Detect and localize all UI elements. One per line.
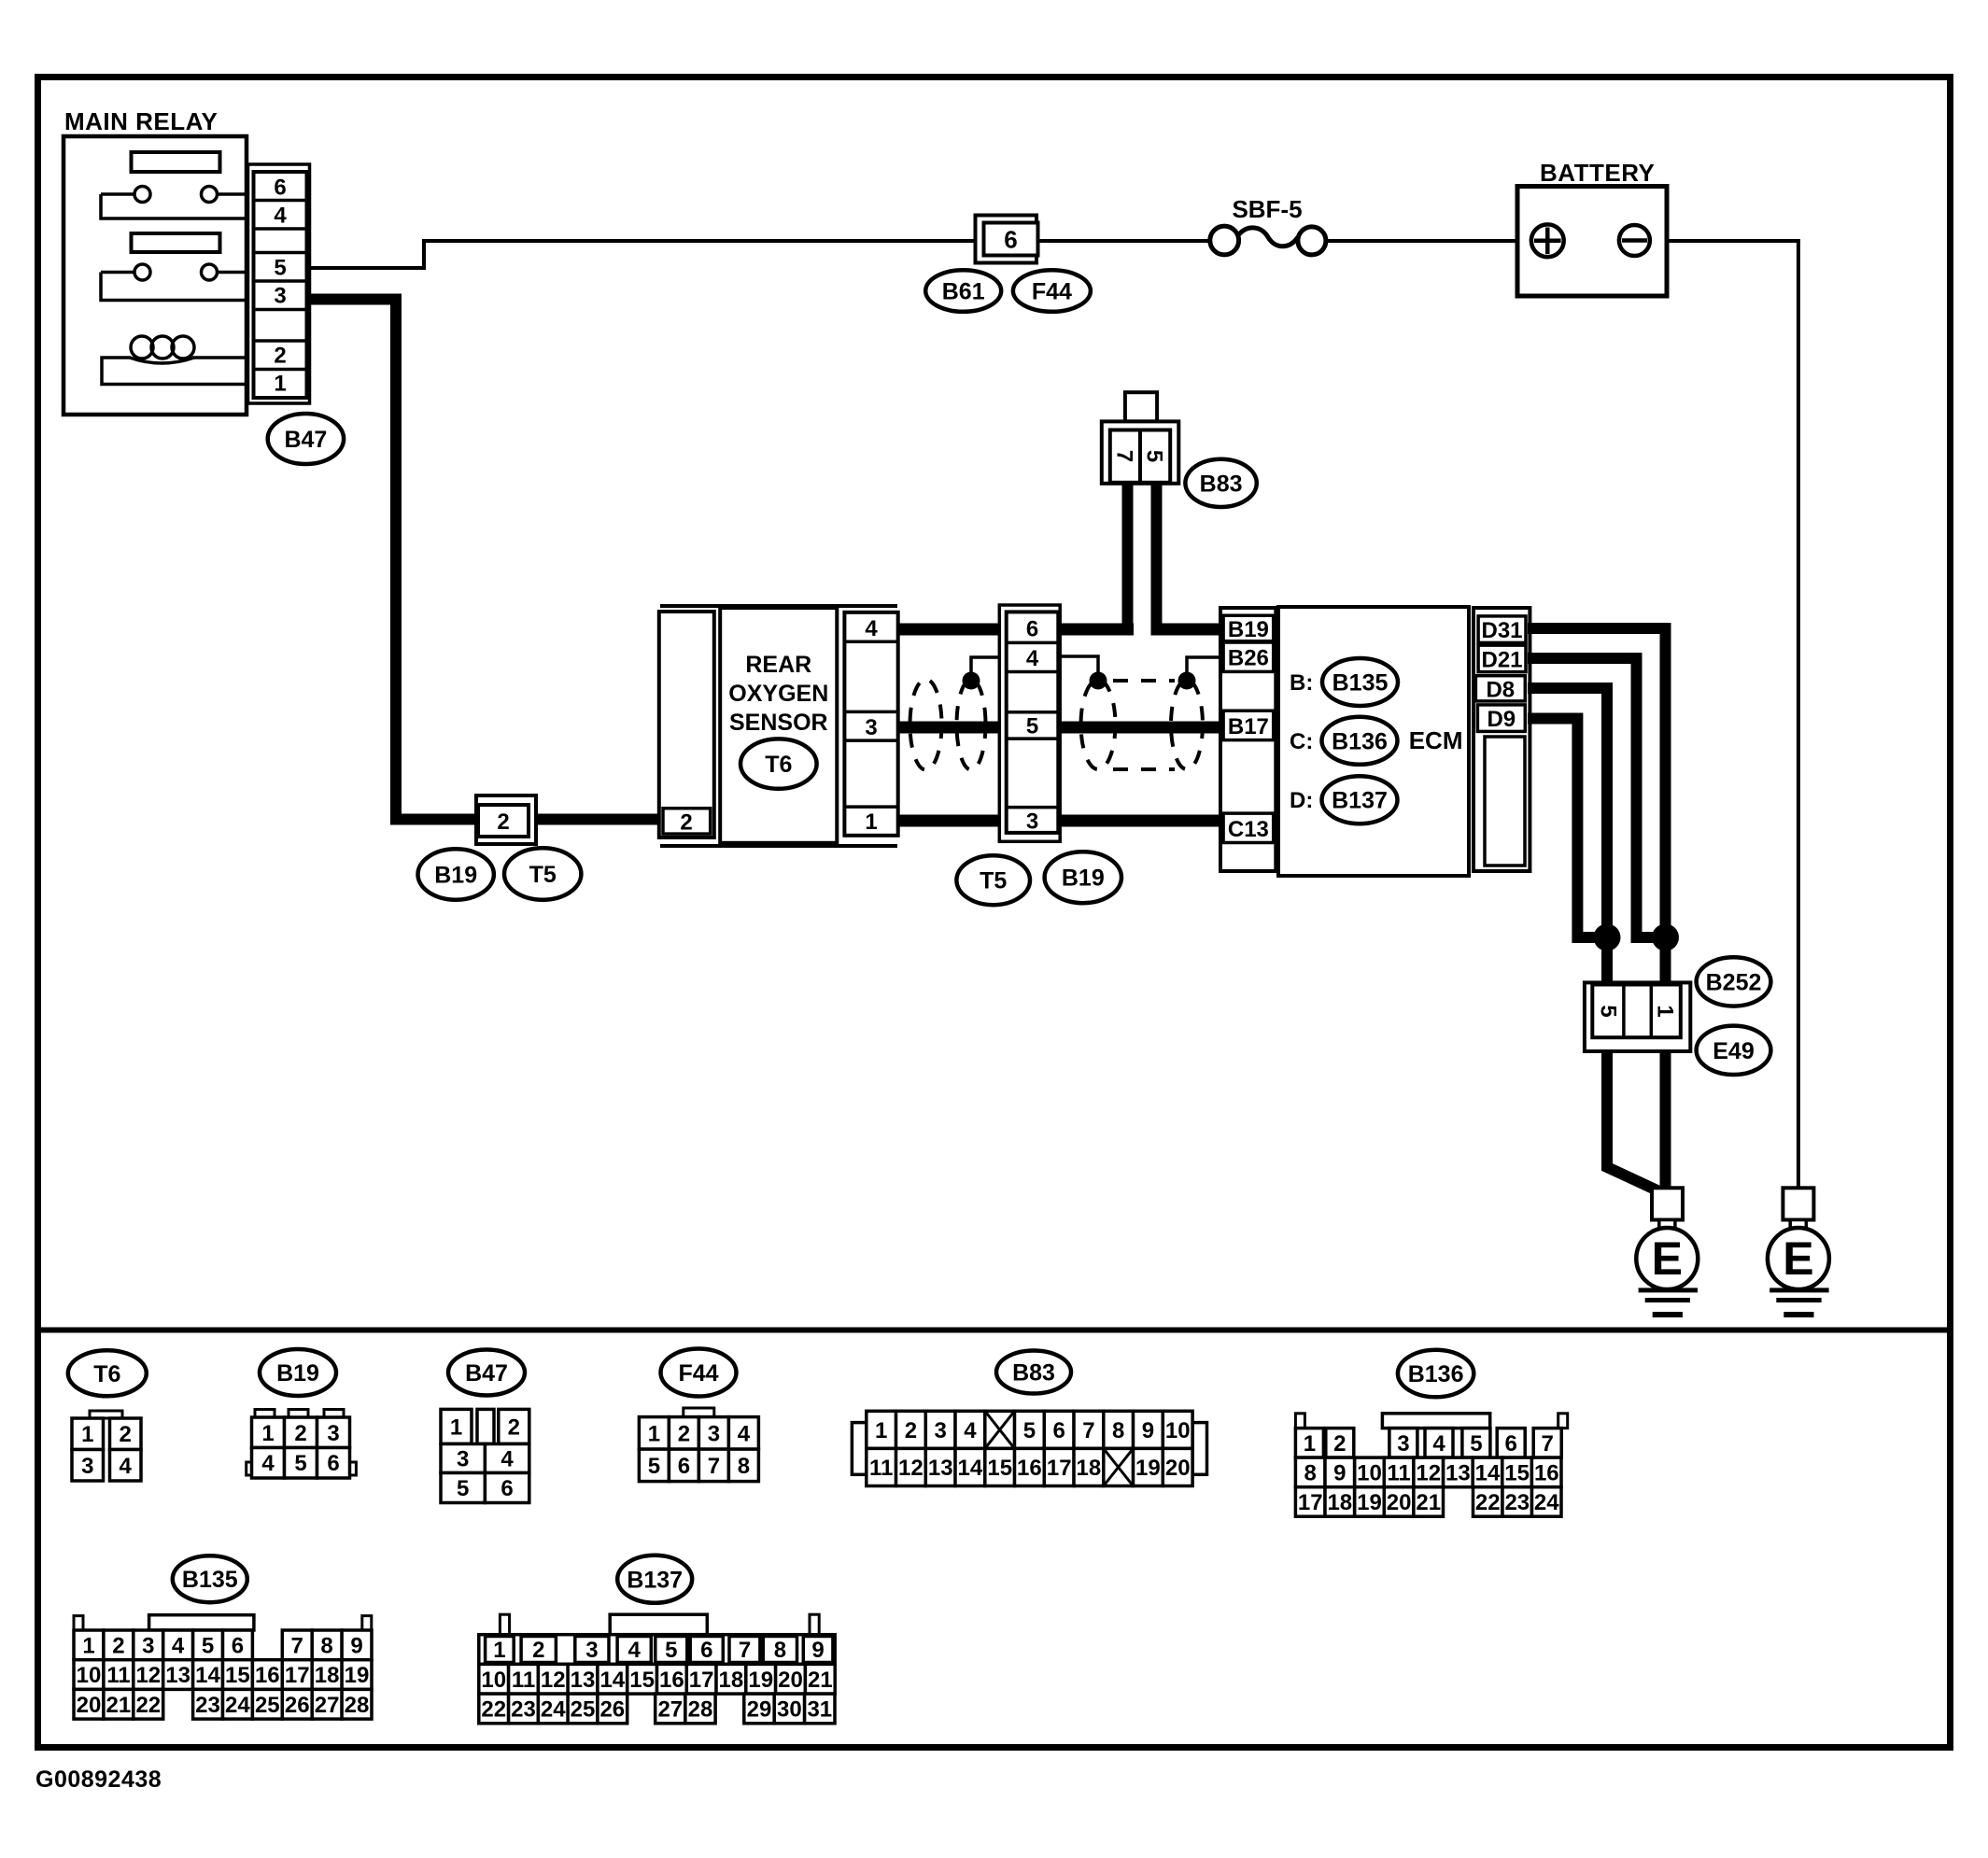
- relay pin 6: [274, 176, 286, 201]
- svg-text:19: 19: [345, 1663, 370, 1688]
- svg-text:12: 12: [1416, 1460, 1441, 1485]
- svg-text:5: 5: [1026, 714, 1038, 739]
- svg-text:18: 18: [1077, 1456, 1102, 1481]
- svg-text:4: 4: [261, 1451, 275, 1476]
- svg-text:15: 15: [987, 1456, 1012, 1481]
- T5 pin 3: [1026, 809, 1038, 835]
- svg-text:5: 5: [202, 1633, 214, 1658]
- svg-text:5: 5: [274, 256, 286, 281]
- connector label oval B83: [1185, 459, 1256, 507]
- svg-text:11: 11: [106, 1663, 130, 1688]
- wire: B83 pin5 vertical (heavy): [1151, 482, 1163, 636]
- svg-text:5: 5: [1596, 1005, 1621, 1017]
- svg-text:23: 23: [1504, 1490, 1530, 1515]
- svg-text:27: 27: [657, 1696, 683, 1722]
- separator line between schematic and connector views: [41, 1328, 1947, 1333]
- svg-text:BATTERY: BATTERY: [1540, 159, 1655, 187]
- svg-text:C13: C13: [1228, 817, 1269, 842]
- svg-text:B83: B83: [1200, 471, 1243, 497]
- svg-text:B19: B19: [276, 1360, 319, 1386]
- svg-text:17: 17: [1047, 1456, 1072, 1481]
- wire: junction to B252 pin 5 (heavy): [1601, 937, 1613, 986]
- ECM pin C13: [1223, 813, 1274, 842]
- svg-text:MAIN RELAY: MAIN RELAY: [64, 107, 218, 135]
- BATTERY label: [1540, 159, 1655, 187]
- svg-text:30: 30: [777, 1696, 802, 1722]
- connector label oval T5 (mid): [956, 855, 1030, 905]
- right shield dashed ellipse pair: [1081, 680, 1204, 769]
- svg-text:16: 16: [1534, 1460, 1559, 1485]
- svg-text:D21: D21: [1481, 647, 1522, 672]
- svg-text:B61: B61: [942, 279, 985, 305]
- svg-text:2: 2: [532, 1638, 544, 1663]
- svg-text:8: 8: [774, 1638, 786, 1663]
- battery positive terminal: [1531, 224, 1564, 257]
- svg-text:21: 21: [1416, 1490, 1441, 1515]
- connector view T6 pin grid: [72, 1411, 141, 1481]
- svg-text:1: 1: [274, 372, 286, 397]
- inline connector 2 (B19/T5) inner box and pin 2: [478, 805, 529, 837]
- inline connector 6 (B61/F44) outer box: [976, 216, 1037, 263]
- svg-text:9: 9: [350, 1633, 362, 1658]
- connector view B47 pin grid: [441, 1409, 529, 1502]
- svg-text:21: 21: [106, 1693, 132, 1718]
- svg-text:E49: E49: [1713, 1038, 1754, 1064]
- connector view oval B135: [173, 1555, 247, 1602]
- svg-text:5: 5: [294, 1451, 306, 1476]
- fuse SBF-5 label: [1232, 195, 1302, 223]
- ground E left earth lines: [1639, 1290, 1698, 1315]
- wire: sensor pin1 to T5 pin3 (heavy): [896, 815, 1008, 827]
- svg-text:6: 6: [1026, 617, 1038, 642]
- svg-text:F44: F44: [1032, 279, 1072, 305]
- svg-text:13: 13: [571, 1668, 596, 1693]
- junction dot left (D9/D8): [1594, 924, 1621, 951]
- wire: battery negative to right side corner: [1666, 239, 1800, 243]
- svg-text:15: 15: [225, 1663, 250, 1688]
- connector view B83 pin grid: [852, 1411, 1206, 1485]
- svg-text:26: 26: [285, 1693, 310, 1718]
- ECM main box: [1278, 607, 1469, 876]
- svg-text:4: 4: [738, 1421, 751, 1446]
- ground E left circle: [1636, 1228, 1698, 1289]
- svg-text:23: 23: [511, 1696, 536, 1722]
- svg-text:6: 6: [232, 1633, 244, 1658]
- relay pin 2: [274, 344, 286, 369]
- svg-text:7: 7: [1082, 1418, 1094, 1443]
- rear oxygen sensor shell top line: [660, 604, 897, 608]
- left shield drain wire to T5 pin 4: [971, 657, 1007, 681]
- wire: right side vertical down to ground E: [1797, 239, 1800, 1189]
- wire: ECM D31 to ground (heavy, right-down): [1528, 628, 1666, 939]
- svg-text:8: 8: [1304, 1460, 1317, 1485]
- relay pin 4: [274, 204, 287, 229]
- svg-text:B26: B26: [1228, 646, 1269, 671]
- connector label oval B19 (mid): [1045, 852, 1121, 903]
- inline connector 2 (B19/T5) outer box: [476, 795, 536, 844]
- svg-text:4: 4: [501, 1447, 514, 1472]
- inline connector 6 (B61/F44) inner box and pin 6: [984, 223, 1038, 256]
- ground E left terminal box: [1652, 1188, 1683, 1228]
- svg-text:6: 6: [274, 176, 286, 201]
- wire: B252 pin 5 down and diagonal to ground (heavy): [1607, 1036, 1659, 1191]
- svg-text:D8: D8: [1486, 677, 1515, 702]
- svg-text:3: 3: [708, 1421, 720, 1446]
- connector view oval B83: [996, 1351, 1071, 1394]
- wire: T5 pin5 to ECM B17 (heavy): [1057, 722, 1222, 734]
- svg-text:B136: B136: [1408, 1361, 1464, 1387]
- wire: ECM D8 (heavy, right-down): [1528, 688, 1607, 939]
- svg-text:14: 14: [1475, 1460, 1501, 1485]
- right shield drain wire to ECM B26: [1187, 657, 1222, 674]
- ground E right earth lines: [1769, 1290, 1828, 1315]
- svg-text:6: 6: [1053, 1418, 1065, 1443]
- svg-text:D31: D31: [1481, 618, 1522, 643]
- ECM pin B19: [1223, 615, 1274, 642]
- relay contact bar 2: [132, 233, 220, 252]
- sensor connector T6 left column: [659, 612, 714, 838]
- connector view B135 pin grid: [74, 1615, 372, 1719]
- svg-text:6: 6: [327, 1451, 339, 1476]
- svg-text:24: 24: [541, 1696, 566, 1722]
- connector view oval B137: [617, 1555, 692, 1603]
- svg-text:7: 7: [708, 1454, 720, 1479]
- svg-text:29: 29: [747, 1696, 772, 1722]
- rear oxygen sensor shell bottom line: [660, 844, 897, 848]
- connector view B136 pin grid: [1295, 1414, 1567, 1516]
- svg-text:19: 19: [1357, 1490, 1382, 1515]
- svg-text:B135: B135: [182, 1567, 238, 1593]
- svg-text:14: 14: [195, 1663, 220, 1688]
- svg-text:14: 14: [958, 1456, 983, 1481]
- ECM connector letter B label: [1290, 670, 1313, 696]
- sensor right connector column: [844, 612, 897, 836]
- svg-text:23: 23: [195, 1693, 220, 1718]
- connector label oval B47: [268, 414, 344, 464]
- svg-text:G00892438: G00892438: [35, 1767, 162, 1793]
- svg-text:6: 6: [700, 1638, 712, 1663]
- svg-text:2: 2: [680, 810, 692, 836]
- wire: ECM D21 (heavy, right-down to junction): [1528, 658, 1658, 937]
- T5 pin 5: [1026, 714, 1038, 739]
- svg-text:2: 2: [497, 809, 509, 835]
- svg-text:5: 5: [665, 1638, 677, 1663]
- B83 connector outer box: [1102, 421, 1179, 483]
- svg-text:OXYGEN: OXYGEN: [728, 681, 828, 707]
- rear oxygen sensor body box: [720, 608, 837, 843]
- svg-text:1: 1: [493, 1638, 505, 1663]
- svg-text:3: 3: [274, 284, 286, 309]
- relay contact row 2 (to pins 5 and 3): [101, 264, 248, 301]
- svg-text:4: 4: [1432, 1431, 1445, 1457]
- ECM left connector column: [1220, 608, 1276, 871]
- wire: B252 pin 1 down to ground (heavy): [1660, 1036, 1671, 1191]
- svg-text:12: 12: [541, 1668, 566, 1693]
- right shield junction dot right: [1178, 672, 1196, 690]
- wire: T5 pin3 to ECM C13 (heavy): [1057, 815, 1222, 827]
- relay pin 1: [274, 372, 286, 397]
- svg-text:6: 6: [1004, 226, 1017, 254]
- svg-text:B47: B47: [465, 1360, 508, 1386]
- ECM right column lower blank cell: [1485, 737, 1525, 866]
- connector view oval F44: [661, 1349, 737, 1397]
- svg-text:3: 3: [585, 1638, 598, 1663]
- svg-text:2: 2: [274, 344, 286, 369]
- svg-text:4: 4: [172, 1633, 185, 1658]
- connector view oval B19: [260, 1349, 336, 1396]
- svg-text:17: 17: [1298, 1490, 1323, 1515]
- relay coil (to pins 2 and 1): [102, 336, 248, 385]
- svg-text:4: 4: [120, 1454, 133, 1479]
- svg-text:7: 7: [291, 1633, 303, 1658]
- svg-text:1: 1: [1653, 1005, 1678, 1017]
- svg-text:REAR: REAR: [745, 652, 811, 678]
- connector view B19 pin grid: [247, 1410, 357, 1479]
- ECM pin D9: [1477, 705, 1525, 732]
- wire: B61 connector to fuse SBF-5: [1037, 239, 1211, 243]
- connector view B137 pin grid: [479, 1614, 835, 1724]
- svg-text:B252: B252: [1706, 969, 1762, 995]
- svg-text:3: 3: [457, 1447, 469, 1472]
- ECM connector oval B135: [1322, 658, 1398, 706]
- svg-text:9: 9: [1333, 1460, 1346, 1485]
- relay contact bar 1: [132, 152, 220, 172]
- svg-text:24: 24: [1534, 1490, 1559, 1515]
- connector view oval B47: [448, 1350, 525, 1396]
- left shield dashed ellipse pair: [910, 680, 986, 770]
- svg-text:13: 13: [1445, 1460, 1471, 1485]
- ECM connector letter C label: [1290, 729, 1313, 754]
- svg-text:11: 11: [1387, 1460, 1410, 1485]
- svg-text:16: 16: [255, 1663, 280, 1688]
- left shield junction dot: [963, 672, 980, 690]
- ECM pin B26: [1223, 642, 1274, 671]
- svg-text:10: 10: [481, 1668, 506, 1693]
- svg-text:B136: B136: [1332, 728, 1388, 754]
- svg-text:12: 12: [135, 1663, 161, 1688]
- svg-text:2: 2: [294, 1421, 306, 1446]
- svg-text:C:: C:: [1290, 729, 1313, 754]
- wire: B83 pin5 to ECM B19 (heavy): [1151, 624, 1222, 636]
- svg-text:11: 11: [869, 1456, 893, 1481]
- svg-text:18: 18: [315, 1663, 340, 1688]
- svg-text:6: 6: [678, 1454, 690, 1479]
- svg-text:T6: T6: [765, 752, 792, 778]
- svg-text:13: 13: [165, 1663, 190, 1688]
- svg-text:2: 2: [1333, 1431, 1346, 1457]
- svg-text:13: 13: [928, 1456, 953, 1481]
- svg-text:2: 2: [905, 1418, 917, 1443]
- svg-text:1: 1: [82, 1633, 94, 1658]
- svg-text:B19: B19: [1228, 617, 1269, 642]
- ECM pin D8: [1475, 676, 1525, 703]
- svg-text:22: 22: [135, 1693, 161, 1718]
- svg-text:B135: B135: [1332, 670, 1389, 697]
- svg-text:8: 8: [738, 1454, 750, 1479]
- svg-text:28: 28: [345, 1693, 370, 1718]
- svg-text:15: 15: [1504, 1460, 1530, 1485]
- svg-text:B19: B19: [434, 863, 477, 889]
- svg-text:3: 3: [1026, 809, 1038, 835]
- T5 connector pin column: [1007, 612, 1059, 833]
- fuse SBF-5 symbol: [1210, 226, 1326, 255]
- svg-text:5: 5: [1470, 1431, 1482, 1457]
- svg-text:4: 4: [274, 204, 287, 229]
- connector view oval B136: [1398, 1350, 1473, 1398]
- svg-text:B:: B:: [1290, 670, 1313, 696]
- svg-text:4: 4: [865, 616, 878, 641]
- svg-text:10: 10: [77, 1663, 102, 1688]
- svg-text:5: 5: [1142, 450, 1167, 462]
- svg-text:20: 20: [77, 1693, 102, 1718]
- svg-text:3: 3: [81, 1454, 93, 1479]
- svg-text:5: 5: [457, 1476, 469, 1501]
- wire: relay pin3 heavy wire down and right to sensor pin2: [306, 300, 665, 820]
- svg-text:T6: T6: [93, 1361, 120, 1387]
- wire: relay pin5 to B61 connector (thin): [306, 241, 976, 268]
- svg-text:T5: T5: [980, 868, 1007, 894]
- ECM pin B17: [1223, 711, 1274, 739]
- sensor connector pin 1: [865, 809, 877, 835]
- svg-text:10: 10: [1357, 1460, 1382, 1485]
- connector B252/E49 inner box with pins 5 and 1: [1592, 985, 1681, 1038]
- svg-text:25: 25: [571, 1696, 596, 1722]
- svg-text:12: 12: [898, 1456, 924, 1481]
- svg-text:16: 16: [659, 1668, 684, 1693]
- svg-text:10: 10: [1165, 1418, 1191, 1443]
- svg-text:19: 19: [1135, 1456, 1161, 1481]
- right shield junction dot left: [1090, 672, 1107, 690]
- svg-text:2: 2: [112, 1633, 124, 1658]
- svg-text:24: 24: [225, 1693, 250, 1718]
- svg-text:20: 20: [1387, 1490, 1412, 1515]
- svg-text:T5: T5: [529, 862, 557, 888]
- connector B252/E49 outer box: [1585, 982, 1690, 1051]
- svg-text:19: 19: [748, 1668, 773, 1693]
- relay connector B47 pin column: [254, 172, 307, 398]
- svg-text:B137: B137: [1332, 788, 1388, 814]
- connector label oval B61: [925, 270, 1001, 312]
- svg-text:4: 4: [1026, 646, 1039, 671]
- svg-text:B17: B17: [1228, 714, 1269, 739]
- svg-text:1: 1: [450, 1415, 462, 1440]
- ECM connector oval B137: [1322, 776, 1398, 823]
- wire: sensor pin4 to T5 pin6 (heavy): [896, 624, 1008, 636]
- connector view F44 pin grid: [639, 1408, 758, 1482]
- svg-text:9: 9: [1142, 1418, 1154, 1443]
- svg-text:3: 3: [142, 1633, 154, 1658]
- svg-text:6: 6: [501, 1476, 513, 1501]
- svg-text:3: 3: [935, 1418, 947, 1443]
- MAIN RELAY label: [64, 107, 218, 135]
- connector view oval T6: [68, 1350, 147, 1396]
- svg-text:2: 2: [508, 1415, 520, 1440]
- svg-text:20: 20: [1165, 1456, 1191, 1481]
- sensor connector T6 pin 2 cell: [663, 809, 711, 836]
- wire: T5 pin6 to B83 pin7 riser (heavy): [1057, 624, 1134, 636]
- wire: ECM D9 (heavy, right-down to junction): [1528, 719, 1600, 938]
- svg-text:8: 8: [320, 1633, 332, 1658]
- svg-text:E: E: [1783, 1232, 1813, 1285]
- relay pin 3: [274, 284, 286, 309]
- figure number G00892438: [35, 1767, 162, 1793]
- connector label oval B19 (lower left): [418, 849, 494, 899]
- svg-text:B137: B137: [627, 1567, 683, 1593]
- svg-text:B19: B19: [1062, 866, 1105, 892]
- svg-text:7: 7: [1542, 1431, 1554, 1457]
- svg-text:7: 7: [739, 1638, 751, 1663]
- svg-text:21: 21: [808, 1668, 833, 1693]
- svg-text:2: 2: [120, 1422, 132, 1447]
- svg-text:27: 27: [315, 1693, 340, 1718]
- svg-text:5: 5: [648, 1454, 660, 1479]
- sensor label oval T6: [740, 739, 817, 788]
- svg-text:SBF-5: SBF-5: [1232, 195, 1302, 223]
- svg-text:4: 4: [628, 1638, 642, 1663]
- battery negative terminal: [1619, 225, 1650, 256]
- svg-text:31: 31: [807, 1696, 832, 1722]
- svg-text:SENSOR: SENSOR: [729, 710, 828, 736]
- svg-text:18: 18: [1327, 1490, 1352, 1515]
- svg-text:1: 1: [261, 1421, 274, 1446]
- svg-text:9: 9: [811, 1638, 824, 1663]
- svg-text:17: 17: [689, 1668, 714, 1693]
- wire: junction to B252 pin 1 (heavy): [1660, 937, 1671, 986]
- svg-text:7: 7: [1112, 450, 1137, 462]
- svg-text:B83: B83: [1012, 1360, 1055, 1386]
- wire: fuse SBF-5 to battery: [1325, 239, 1519, 243]
- T5 pin 6: [1026, 617, 1038, 642]
- svg-text:18: 18: [719, 1668, 744, 1693]
- svg-text:28: 28: [688, 1696, 713, 1722]
- right shield drain wire from T5 pin 4: [1059, 656, 1099, 674]
- ECM connector oval B136: [1322, 717, 1398, 765]
- svg-text:4: 4: [964, 1418, 977, 1443]
- svg-text:1: 1: [865, 809, 877, 835]
- svg-text:20: 20: [778, 1668, 803, 1693]
- sensor connector pin 4: [865, 616, 878, 641]
- connector label oval E49: [1697, 1026, 1771, 1075]
- svg-text:D:: D:: [1290, 788, 1313, 813]
- REAR OXYGEN SENSOR label: [728, 652, 828, 736]
- svg-text:6: 6: [1505, 1431, 1517, 1457]
- svg-text:3: 3: [327, 1421, 339, 1446]
- battery box: [1517, 187, 1667, 297]
- svg-text:22: 22: [481, 1696, 506, 1722]
- ECM connector letter D label: [1290, 788, 1313, 813]
- relay contact row 1 (to pins 6 and 4): [101, 187, 248, 219]
- ECM pin D21: [1478, 645, 1526, 672]
- junction dot right (D21/D31): [1652, 924, 1679, 951]
- B83 connector inner box with pins 7 and 5: [1110, 430, 1170, 483]
- relay connector B47 shell: [248, 164, 310, 403]
- svg-text:1: 1: [875, 1418, 887, 1443]
- svg-text:8: 8: [1112, 1418, 1124, 1443]
- svg-text:1: 1: [1304, 1431, 1316, 1457]
- connector label oval B252: [1697, 957, 1771, 1006]
- svg-text:3: 3: [1397, 1431, 1409, 1457]
- relay pin 5: [274, 256, 286, 281]
- svg-text:15: 15: [629, 1668, 655, 1693]
- wire: B83 pin7 vertical (heavy): [1122, 482, 1134, 636]
- ground E right terminal box: [1783, 1188, 1813, 1228]
- main relay box: [63, 136, 247, 415]
- svg-text:25: 25: [255, 1693, 280, 1718]
- connector label oval T5 (lower left): [504, 848, 581, 899]
- svg-text:ECM: ECM: [1409, 726, 1463, 754]
- svg-text:11: 11: [512, 1668, 535, 1693]
- ECM label: [1409, 726, 1463, 754]
